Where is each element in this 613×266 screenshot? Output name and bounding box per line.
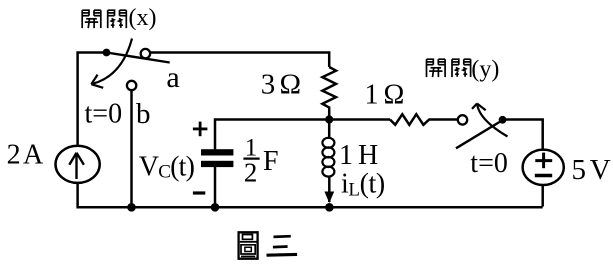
- svg-text:(y): (y): [471, 56, 499, 82]
- svg-text:a: a: [166, 61, 179, 94]
- svg-text:5 V: 5 V: [572, 154, 611, 186]
- svg-text:(x): (x): [129, 5, 157, 31]
- svg-text:1 H: 1 H: [339, 140, 378, 171]
- svg-text:3 Ω: 3 Ω: [261, 69, 301, 101]
- svg-text:2 A: 2 A: [7, 139, 44, 170]
- svg-text:2: 2: [244, 158, 258, 188]
- svg-text:F: F: [263, 146, 279, 177]
- svg-text:iL(t): iL(t): [341, 169, 385, 201]
- svg-text:1 Ω: 1 Ω: [365, 79, 405, 110]
- svg-text:b: b: [136, 98, 151, 130]
- svg-text:t=0: t=0: [470, 148, 508, 179]
- svg-text:t=0: t=0: [85, 98, 123, 129]
